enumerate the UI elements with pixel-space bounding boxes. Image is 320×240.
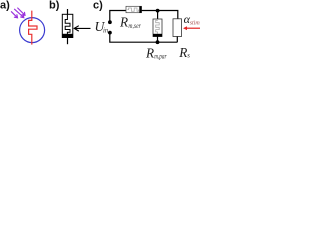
node: top input terminal dot — [108, 20, 112, 24]
wire: top-left from terminal up and right to R_m,ser — [110, 11, 126, 22]
resistor R_m,par box — [153, 19, 162, 37]
svg-text:c): c) — [93, 0, 103, 12]
light arrow A1 (purple, part a) — [11, 12, 17, 18]
node: bottom input terminal dot — [108, 31, 112, 35]
wire: stub from R_m,par down to bottom junction — [157, 37, 159, 43]
R_m,par black electrode bar at bottom — [153, 34, 162, 37]
resistor R_m,ser box — [126, 6, 142, 12]
svg-text:m,par: m,par — [154, 53, 167, 60]
svg-text:s: s — [187, 53, 190, 60]
svg-text:m,ser: m,ser — [128, 23, 141, 30]
svg-text:b): b) — [49, 0, 60, 12]
node: bottom junction dot — [156, 40, 160, 44]
stimulus arrow alpha_stim (red) — [186, 27, 200, 29]
part b: bottom lead — [67, 38, 69, 45]
photoresistor envelope circle (blue, part a) — [20, 18, 45, 43]
part b: black electrode bar at bottom of box — [62, 34, 73, 38]
R_m,ser black electrode bar at right end — [139, 6, 141, 13]
svg-text:R: R — [145, 45, 154, 60]
wire: bottom rail from lower terminal to under R_s — [110, 33, 178, 42]
R_m,par meander element (gray) — [156, 19, 160, 34]
node: top junction dot — [156, 9, 160, 13]
photoresistor meander element (red, part a) — [29, 11, 37, 45]
wire: from R_m,ser to top-right corner, down to R_s — [142, 11, 178, 19]
part b: stimulus arrow pointing at box — [74, 26, 90, 31]
light arrow A2 (purple, part a) — [15, 9, 24, 17]
svg-text:R: R — [119, 15, 128, 30]
part b: top lead — [67, 9, 69, 14]
R_m,ser meander element (gray) — [127, 8, 138, 11]
wire: stub from top junction down to R_m,par — [157, 11, 159, 19]
svg-text:a): a) — [0, 0, 10, 12]
light arrow A3 (purple, part a) — [18, 8, 25, 15]
part b: meander element inside box — [65, 14, 70, 34]
part b: resistor box outline — [62, 14, 73, 37]
resistor R_s box — [173, 19, 182, 37]
wire: stub from R_s down to bottom wire — [176, 37, 178, 43]
svg-text:in: in — [103, 28, 109, 35]
svg-text:R: R — [178, 45, 187, 60]
svg-text:stim: stim — [190, 19, 200, 26]
